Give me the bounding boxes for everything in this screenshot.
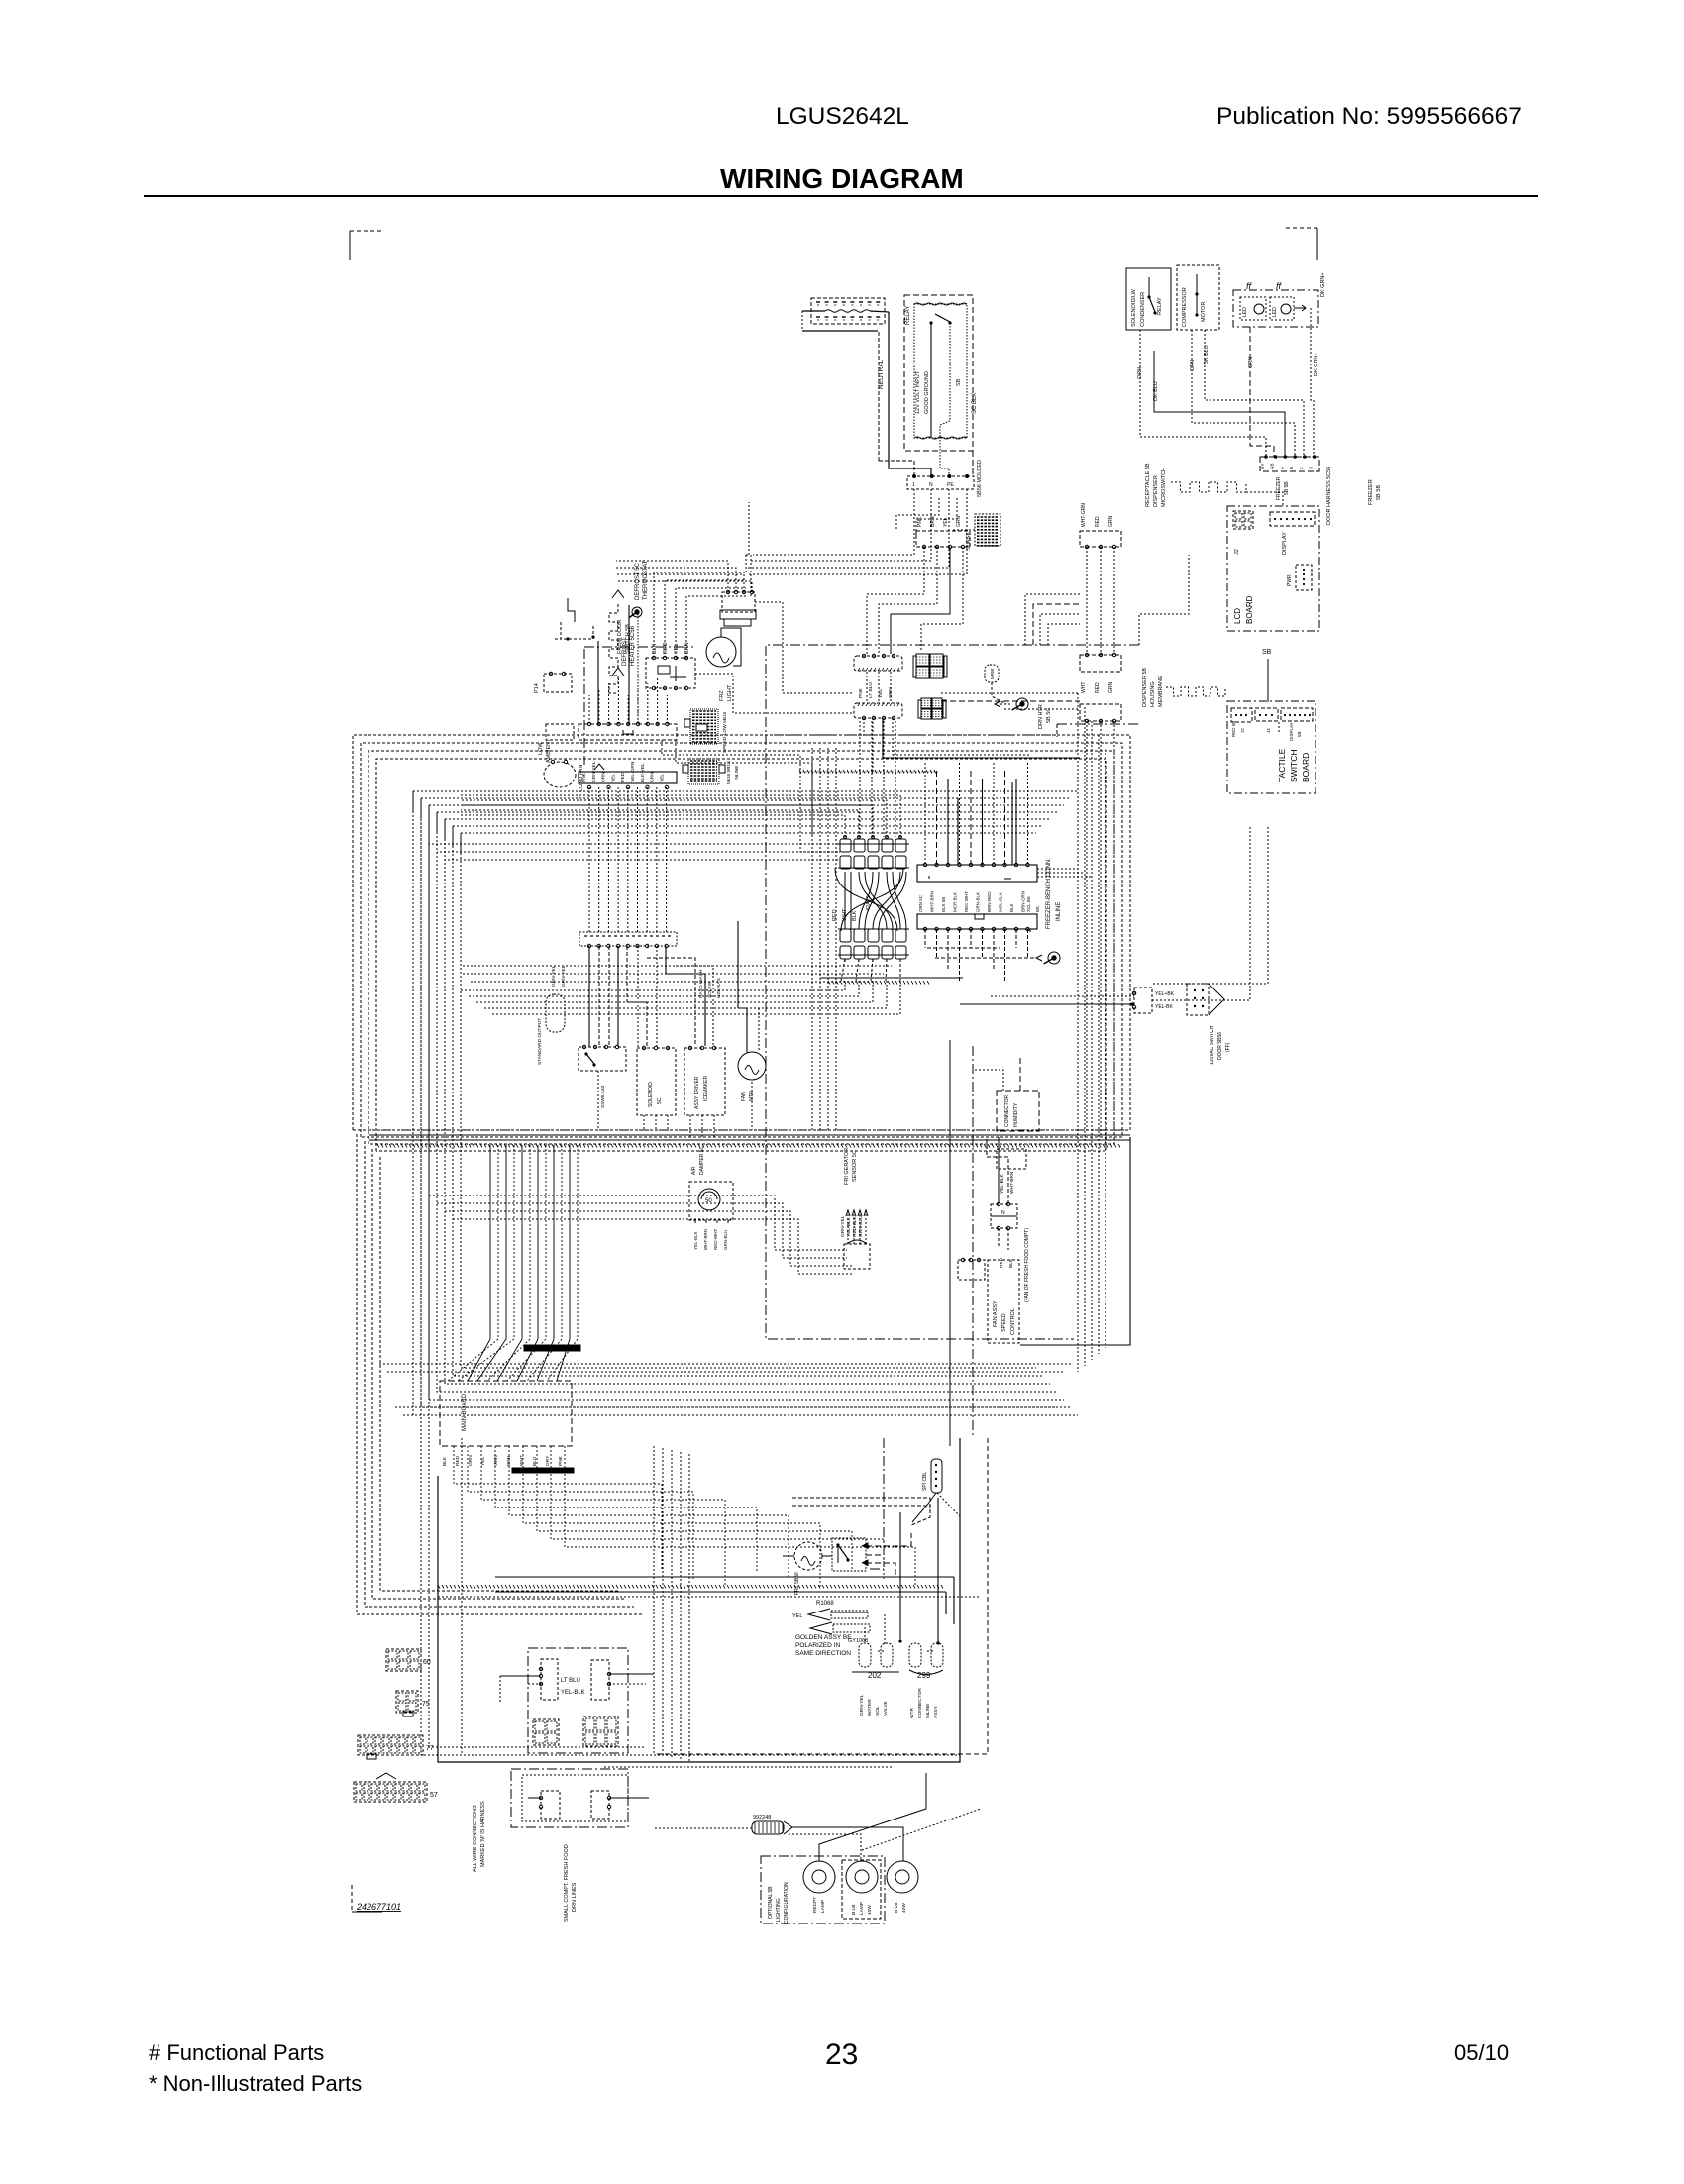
wire led drop 2 xyxy=(1311,308,1319,457)
lamp bottom 1 xyxy=(803,1861,835,1913)
svg-text:LT BLU: LT BLU xyxy=(868,682,874,698)
svg-text:CONDENSER: CONDENSER xyxy=(1140,292,1146,327)
small block MRW xyxy=(985,665,1006,704)
defrost thermostat lead xyxy=(555,598,595,641)
svg-text:LGUS2642L: LGUS2642L xyxy=(776,103,909,130)
tactile switch board xyxy=(1227,701,1316,793)
svg-text:DISPLAY: DISPLAY xyxy=(1289,722,1294,741)
label freezer-bench conn xyxy=(1046,858,1062,929)
surge snubber xyxy=(951,514,1000,550)
wire bundle into board xyxy=(448,1145,578,1381)
svg-text:5B 5B: 5B 5B xyxy=(1284,481,1290,495)
inline connector wire fan xyxy=(835,868,906,931)
wires splice to lamps xyxy=(654,1773,981,1861)
svg-text:PNK: PNK xyxy=(917,516,923,527)
corner mark bottom-left xyxy=(352,1885,401,1912)
wire lower bus xyxy=(438,1577,981,1624)
filter triangle xyxy=(1187,984,1231,1065)
svg-text:INLINE: INLINE xyxy=(925,1704,931,1718)
svg-text:77: 77 xyxy=(426,1745,434,1752)
svg-text:GRN-YEL: GRN-YEL xyxy=(859,1694,865,1716)
compressor box xyxy=(1177,265,1219,330)
wire web b xyxy=(695,602,854,713)
svg-text:WHT-BRN: WHT-BRN xyxy=(703,1229,708,1250)
footer functional parts xyxy=(149,2040,324,2065)
wires inline strip right xyxy=(1037,869,1092,877)
svg-text:WHT-BRN: WHT-BRN xyxy=(1009,1171,1015,1194)
svg-text:BRN-RED: BRN-RED xyxy=(987,891,992,912)
svg-text:WHT-GRN: WHT-GRN xyxy=(1081,503,1087,527)
svg-text:SENSOR 5C: SENSOR 5C xyxy=(852,1150,858,1182)
svg-text:50: 50 xyxy=(705,1198,712,1204)
corner mark top-left xyxy=(350,231,381,260)
svg-text:LIGHTING: LIGHTING xyxy=(776,1898,782,1922)
svg-text:Z: Z xyxy=(1299,467,1304,469)
svg-text:TACTILE: TACTILE xyxy=(1277,748,1287,782)
wire ring deep left xyxy=(357,799,654,1755)
svg-text:WHT: WHT xyxy=(1081,682,1087,693)
wire compressor drop 2 xyxy=(1153,351,1285,457)
svg-text:SMALL COMPT. FRESH FOOD: SMALL COMPT. FRESH FOOD xyxy=(564,1844,570,1922)
svg-text:PNK: PNK xyxy=(558,1455,564,1466)
defrost timer pill xyxy=(537,965,567,1065)
svg-text:GB: GB xyxy=(1270,463,1275,469)
ice spi component xyxy=(912,1459,960,1522)
svg-text:CONNECTOR: CONNECTOR xyxy=(917,1688,923,1718)
wire low right b xyxy=(792,1498,930,1525)
svg-text:FRZ: FRZ xyxy=(719,690,725,701)
fan motor circle xyxy=(738,1052,766,1101)
connector E0 4-pin xyxy=(916,516,970,549)
svg-text:5B 5B: 5B 5B xyxy=(1376,485,1382,500)
svg-text:COMPRESSOR: COMPRESSOR xyxy=(1182,287,1188,327)
svg-text:NEUTRAL: NEUTRAL xyxy=(878,359,885,389)
connector 57 xyxy=(354,1773,438,1802)
svg-text:DOOR 5B56: DOOR 5B56 xyxy=(1217,1032,1223,1060)
light switch box xyxy=(832,1533,911,1575)
wires k2 to strip xyxy=(589,787,667,932)
svg-text:GY: GY xyxy=(1260,463,1265,469)
svg-text:SWITCH: SWITCH xyxy=(1289,749,1299,782)
header model text xyxy=(776,103,909,130)
svg-text:12V VOLT INPUT: 12V VOLT INPUT xyxy=(915,370,921,414)
svg-text:DOOR HARNESS 5C56: DOOR HARNESS 5C56 xyxy=(1326,467,1332,525)
svg-text:DRN LINES: DRN LINES xyxy=(572,1882,578,1912)
svg-text:WTR: WTR xyxy=(909,1708,915,1718)
svg-text:GRN: GRN xyxy=(956,516,962,528)
svg-text:DISPENSER: DISPENSER xyxy=(1153,475,1159,507)
svg-text:BLK: BLK xyxy=(442,1456,448,1466)
svg-text:242677101: 242677101 xyxy=(356,1902,401,1912)
svg-text:Publication No: 5995566667: Publication No: 5995566667 xyxy=(1216,103,1522,130)
connector 6-pin board xyxy=(1260,455,1319,471)
wire vertical 466 xyxy=(462,1438,528,1755)
wire right column a xyxy=(1278,722,1280,733)
svg-text:WHT: WHT xyxy=(842,908,848,921)
svg-text:BLK 5B: BLK 5B xyxy=(941,897,946,912)
svg-text:LIGHT: LIGHT xyxy=(727,684,733,701)
svg-text:GRN: GRN xyxy=(650,772,656,782)
svg-text:GRN-BLK: GRN-BLK xyxy=(976,892,981,912)
svg-text:BRN: BRN xyxy=(506,1455,512,1466)
low ambient box xyxy=(538,724,574,763)
svg-text:MAIN BOARD: MAIN BOARD xyxy=(462,1393,468,1431)
svg-text:VALVE: VALVE xyxy=(883,1701,889,1716)
grid 2x2 a xyxy=(533,1719,559,1745)
svg-text:SB: SB xyxy=(1262,649,1272,656)
label lt blu xyxy=(561,1678,585,1696)
svg-text:OPTIONAL 5B: OPTIONAL 5B xyxy=(768,1886,774,1919)
svg-text:WHT: WHT xyxy=(519,1455,525,1466)
svg-text:RED: RED xyxy=(620,772,626,782)
wire compressor drop 1 xyxy=(1137,330,1266,457)
svg-text:YEL+BK: YEL+BK xyxy=(1155,991,1175,997)
label freezer 5b xyxy=(1276,476,1290,500)
water valve dual coil A xyxy=(852,1643,899,1716)
svg-text:RELAY: RELAY xyxy=(905,306,911,325)
wire 3-run to bus xyxy=(1087,721,1114,1140)
svg-text:MCR BLK: MCR BLK xyxy=(953,892,958,912)
svg-text:RED: RED xyxy=(1095,516,1101,527)
svg-text:GRN-YEL: GRN-YEL xyxy=(561,965,567,987)
wire right solid corner xyxy=(1020,1137,1130,1345)
connector 60 xyxy=(386,1649,431,1671)
svg-text:PE: PE xyxy=(947,482,954,488)
svg-text:DISPENSER 5B: DISPENSER 5B xyxy=(1142,668,1148,707)
svg-text:PNK: PNK xyxy=(858,687,864,698)
svg-text:CONFIGURATION: CONFIGURATION xyxy=(784,1882,789,1924)
svg-text:B LB: B LB xyxy=(894,1903,899,1913)
text doored assy xyxy=(795,1634,852,1657)
label connector j15 xyxy=(1368,479,1382,505)
drain heater eye xyxy=(995,698,1052,729)
svg-text:BLK: BLK xyxy=(852,910,858,921)
svg-text:LAMP: LAMP xyxy=(859,1902,865,1915)
title rule xyxy=(144,195,1538,197)
svg-text:SPEED-LOW 5B16: SPEED-LOW 5B16 xyxy=(722,711,728,753)
footer non-illustrated parts xyxy=(149,2071,362,2096)
wire ring group outer xyxy=(353,735,1130,1151)
svg-text:40W: 40W xyxy=(867,1905,873,1915)
svg-text:REC WHT: REC WHT xyxy=(964,891,969,912)
svg-text:DK GRN+: DK GRN+ xyxy=(1320,272,1326,297)
riser pair to power xyxy=(746,502,751,596)
humidity sensor box xyxy=(975,1058,1039,1131)
svg-text:FRI GERATOR: FRI GERATOR xyxy=(844,1148,850,1185)
svg-text:LED: LED xyxy=(1272,307,1278,317)
svg-text:5B56 MOLDED: 5B56 MOLDED xyxy=(977,460,983,497)
svg-text:ALL WIRE CONNECTIONS: ALL WIRE CONNECTIONS xyxy=(473,1805,478,1872)
connector power 4-pin xyxy=(907,460,983,497)
svg-text:YEL: YEL xyxy=(674,644,680,654)
svg-text:WATER: WATER xyxy=(867,1699,873,1716)
svg-text:ASSY DRIVER: ASSY DRIVER xyxy=(694,1076,700,1109)
title WIRING DIAGRAM xyxy=(720,163,964,194)
svg-text:ICEMAKER: ICEMAKER xyxy=(703,1075,709,1101)
evaporator thermistor xyxy=(840,1210,870,1269)
svg-text:HOUSING: HOUSING xyxy=(1150,681,1156,707)
lower lighting enclosure xyxy=(511,1769,628,1827)
svg-text:J4: J4 xyxy=(1266,728,1271,733)
svg-text:LT BLU: LT BLU xyxy=(561,1678,580,1684)
svg-text:5C: 5C xyxy=(657,1097,663,1104)
wire compressor drop 3 xyxy=(1190,330,1295,457)
svg-text:5B: 5B xyxy=(1297,731,1302,737)
svg-text:RED-BLK: RED-BLK xyxy=(852,1215,858,1237)
svg-text:GOOD GROUND: GOOD GROUND xyxy=(924,371,930,414)
svg-text:MTR: MTR xyxy=(749,1091,755,1101)
wire right vertical pair xyxy=(950,1040,973,1446)
wires into k1 xyxy=(589,677,667,724)
connector k1 strip xyxy=(579,722,677,782)
aux switch box xyxy=(579,1045,626,1071)
svg-text:THERMOSTAT: THERMOSTAT xyxy=(643,560,649,600)
wire 3-run vertical xyxy=(1087,547,1114,655)
svg-text:GRN-YEL: GRN-YEL xyxy=(840,1215,846,1237)
svg-text:LAMP: LAMP xyxy=(820,1900,826,1913)
svg-text:ORN: ORN xyxy=(1137,367,1143,379)
svg-text:YEL-BLK: YEL-BLK xyxy=(561,1690,585,1696)
footer page number xyxy=(825,2038,858,2071)
inline strip upper xyxy=(917,863,1037,882)
wires into strip upper xyxy=(925,763,1028,865)
svg-text:CONNECTOR: CONNECTOR xyxy=(1004,1094,1010,1127)
k2 pins and marker xyxy=(587,764,668,789)
switch box inner xyxy=(914,303,967,439)
svg-text:SURGE: SURGE xyxy=(966,532,972,550)
arrow terminals xyxy=(792,1601,870,1644)
grid 2x2 b xyxy=(583,1716,618,1746)
connector 77 xyxy=(358,1735,434,1759)
connector k2 strip xyxy=(579,772,677,783)
svg-text:MARKED 'M' IS HARNESS: MARKED 'M' IS HARNESS xyxy=(480,1801,486,1867)
optional lighting box xyxy=(761,1856,885,1924)
svg-text:1: 1 xyxy=(912,482,915,488)
svg-text:FREEZER: FREEZER xyxy=(1368,479,1374,505)
lcd board box xyxy=(1227,506,1319,631)
svg-text:AIR: AIR xyxy=(691,1166,697,1175)
dash-dot defrost boundary xyxy=(584,647,693,765)
inline connector lower array xyxy=(838,929,909,962)
door switch 3 xyxy=(528,1791,560,1819)
defrost heater meander xyxy=(609,590,636,693)
fan assembly box xyxy=(988,1260,1019,1343)
fan control box small xyxy=(958,1258,985,1280)
svg-text:BLK: BLK xyxy=(652,643,658,654)
solid verticals through assembly xyxy=(958,782,1012,865)
label fan fresh food xyxy=(1024,1228,1030,1302)
svg-text:BLK: BLK xyxy=(1009,903,1014,912)
wire bottom horizontals xyxy=(495,1755,960,1767)
wire web d xyxy=(1025,594,1080,645)
wire fan below board xyxy=(454,1446,915,1587)
compartment solid border xyxy=(438,1438,960,1762)
svg-text:DRN HTR: DRN HTR xyxy=(1038,704,1044,729)
label dispenser wires xyxy=(1145,463,1167,507)
svg-text:40W: 40W xyxy=(901,1903,907,1913)
svg-text:WHT-BRN: WHT-BRN xyxy=(930,891,935,912)
wire bundle bottom left xyxy=(654,1446,689,1763)
connector harness 3-pin upper xyxy=(1080,503,1121,549)
wire ring group inner xyxy=(413,791,1078,1415)
wire led drop 1 xyxy=(1248,327,1274,457)
svg-text:FAN: FAN xyxy=(741,1092,747,1101)
inline strip lower xyxy=(917,914,1037,932)
svg-text:SB: SB xyxy=(956,378,962,386)
svg-text:ORN: ORN xyxy=(601,772,607,782)
svg-text:PWR: PWR xyxy=(1287,574,1293,586)
svg-text:# Functional Parts: # Functional Parts xyxy=(149,2040,324,2065)
dashed border right xyxy=(654,1438,988,1754)
svg-text:GRN: GRN xyxy=(493,1455,499,1466)
freezer light lamp xyxy=(706,628,741,701)
svg-text:SOLENOID: SOLENOID xyxy=(648,1082,654,1107)
svg-text:ORN: ORN xyxy=(1190,360,1196,371)
svg-text:RED 5B: RED 5B xyxy=(1231,721,1236,737)
svg-text:N: N xyxy=(1001,1210,1005,1216)
svg-text:5B16 5B18: 5B16 5B18 xyxy=(726,761,732,784)
assy driver box xyxy=(684,1046,725,1115)
labels upper cluster xyxy=(698,969,722,998)
lamp bottom 3 xyxy=(887,1861,918,1913)
inline ground eye xyxy=(1036,952,1060,964)
svg-text:BRN-ORN: BRN-ORN xyxy=(1021,891,1026,912)
solenoid box xyxy=(637,1046,676,1115)
svg-text:B LB: B LB xyxy=(851,1905,857,1915)
door switch 4 xyxy=(591,1791,649,1819)
wires valve feed xyxy=(865,1498,940,1645)
svg-text:DK GRN+: DK GRN+ xyxy=(1314,352,1319,376)
svg-text:PNK: PNK xyxy=(581,772,587,782)
svg-text:RECEPTACLE 5B: RECEPTACLE 5B xyxy=(1145,463,1151,507)
label small compt xyxy=(564,1844,578,1922)
svg-text:S: S xyxy=(1309,467,1314,469)
svg-text:MEMBRANE: MEMBRANE xyxy=(1158,676,1164,707)
inline lower fan-out xyxy=(841,959,900,981)
label inline wires xyxy=(918,891,1040,912)
svg-text:42A25: 42A25 xyxy=(866,895,872,911)
svg-text:YEL-BK: YEL-BK xyxy=(1155,1004,1173,1010)
svg-text:MICROSWITCH: MICROSWITCH xyxy=(1161,468,1167,507)
svg-text:SOL: SOL xyxy=(875,1706,881,1716)
wire runs left of array xyxy=(812,748,836,1130)
terminal block power-cord xyxy=(802,298,885,331)
svg-text:RED: RED xyxy=(455,1455,461,1466)
svg-text:J2: J2 xyxy=(1234,549,1240,555)
svg-text:P14: P14 xyxy=(534,683,540,693)
svg-text:LED: LED xyxy=(1242,307,1248,317)
svg-text:SWITCH 5B: SWITCH 5B xyxy=(625,624,631,654)
wires cluster drop xyxy=(598,1071,752,1137)
svg-text:STANDARD OUTPUT: STANDARD OUTPUT xyxy=(537,1018,543,1065)
svg-text:UZERIAS: UZERIAS xyxy=(716,978,722,998)
label wire harness xyxy=(1320,272,1332,525)
water valve dual coil B xyxy=(909,1643,943,1718)
relay overload box xyxy=(1126,268,1171,330)
svg-text:GOLDEN ASSY BE: GOLDEN ASSY BE xyxy=(795,1634,852,1641)
freezer compartment boundary xyxy=(766,645,1139,1339)
wire bus second xyxy=(429,1196,854,1274)
svg-text:XCL BK: XCL BK xyxy=(1026,896,1031,912)
svg-text:SSW6 A33: SSW6 A33 xyxy=(600,1085,606,1108)
wire bus horizontal lower xyxy=(379,1364,1071,1415)
wires D1 to D1b xyxy=(867,672,891,703)
svg-text:GRN-BLU: GRN-BLU xyxy=(723,1230,728,1250)
wires inline up xyxy=(461,795,900,837)
svg-text:YEL: YEL xyxy=(792,1613,802,1619)
svg-text:BOARD: BOARD xyxy=(1301,753,1311,782)
wires strip to cluster xyxy=(589,921,759,1052)
label SC BLK xyxy=(972,393,978,414)
svg-text:RED: RED xyxy=(663,642,669,654)
connector harness 3-pin lower xyxy=(1080,653,1121,693)
wire web f xyxy=(1152,827,1268,1000)
svg-text:FROM DOOR: FROM DOOR xyxy=(617,620,623,654)
connector pair lower2 xyxy=(1080,704,1121,723)
wire web c xyxy=(896,498,957,539)
svg-text:ASSY: ASSY xyxy=(933,1705,939,1718)
ptc wire risers xyxy=(652,572,746,658)
svg-text:DK BLU: DK BLU xyxy=(1153,381,1159,401)
svg-text:SC BLK: SC BLK xyxy=(972,393,978,414)
label inline left xyxy=(832,908,858,921)
svg-text:75: 75 xyxy=(422,1701,430,1708)
door switch enclosure xyxy=(528,1648,628,1753)
led board xyxy=(1233,281,1318,327)
svg-text:GRY: GRY xyxy=(545,1455,551,1466)
wire solid risers defrost xyxy=(598,605,638,724)
svg-text:* Non-Illustrated Parts: * Non-Illustrated Parts xyxy=(149,2071,362,2096)
splice component xyxy=(752,1815,792,1834)
freezer lamp xyxy=(783,1542,832,1595)
svg-text:FREEZER: FREEZER xyxy=(1276,476,1282,500)
door switch 1 xyxy=(528,1659,558,1700)
air damper box xyxy=(987,1137,1017,1268)
svg-text:BRN: BRN xyxy=(930,516,936,527)
svg-text:R1068: R1068 xyxy=(816,1601,834,1607)
svg-text:(FF): (FF) xyxy=(1225,1042,1231,1052)
wire freezer cluster right runs xyxy=(463,966,892,982)
svg-text:BLU: BLU xyxy=(532,1456,538,1466)
connector strip D1b xyxy=(854,703,902,720)
svg-text:299: 299 xyxy=(917,1671,931,1680)
label ssw6 xyxy=(600,1085,606,1108)
svg-text:BLK-YEL: BLK-YEL xyxy=(640,763,646,782)
switch 120vac xyxy=(1132,988,1174,1013)
svg-text:YEL: YEL xyxy=(610,774,616,782)
wires D1b down xyxy=(864,718,1080,773)
switch box outer xyxy=(904,295,973,451)
svg-text:23: 23 xyxy=(825,2038,858,2071)
svg-text:YEL-BLK: YEL-BLK xyxy=(846,1216,852,1237)
svg-text:GRN: GRN xyxy=(1248,357,1254,368)
main board box xyxy=(440,1345,580,1446)
svg-text:992248: 992248 xyxy=(753,1815,771,1820)
svg-text:120VAC SWITCH: 120VAC SWITCH xyxy=(1210,1025,1215,1065)
svg-text:LOW: LOW xyxy=(538,742,544,755)
svg-text:A: A xyxy=(1279,467,1284,469)
svg-text:INLINE: INLINE xyxy=(734,766,740,780)
hatch block inline 5b18 xyxy=(683,759,740,784)
wire sb runs xyxy=(1267,691,1269,702)
svg-text:N: N xyxy=(929,482,933,488)
svg-text:BOARD: BOARD xyxy=(1245,595,1254,624)
svg-text:J2: J2 xyxy=(1240,728,1245,733)
svg-text:(FAN OF FRESH FOOD COMPT): (FAN OF FRESH FOOD COMPT) xyxy=(1024,1228,1030,1302)
wire right bundle xyxy=(1078,693,1105,1372)
corner mark top-right xyxy=(1286,228,1317,260)
freezer control strip xyxy=(579,932,677,948)
